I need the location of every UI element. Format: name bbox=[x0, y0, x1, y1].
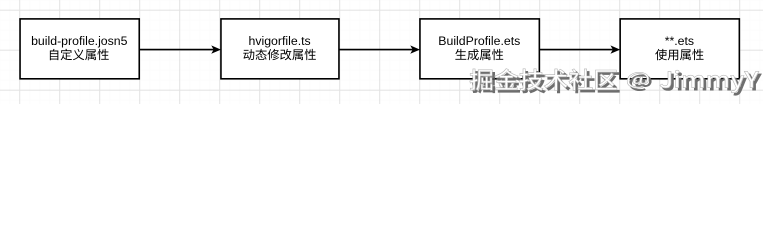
box 4: **.ets / 使用属性 bbox=[620, 19, 739, 79]
svg-text:BuildProfile.ets: BuildProfile.ets bbox=[438, 34, 520, 48]
arrow: box2 to box3 bbox=[339, 45, 420, 53]
box 2: hvigorfile.ts / 动态修改属性 bbox=[221, 19, 339, 79]
box 3: BuildProfile.ets / 生成属性 bbox=[420, 19, 539, 79]
arrow: box1 to box2 bbox=[139, 45, 221, 53]
watermark: 掘金技术社区 @ JimmyY bbox=[470, 69, 759, 93]
svg-text:hvigorfile.ts: hvigorfile.ts bbox=[248, 34, 310, 48]
svg-text:build-profile.josn5: build-profile.josn5 bbox=[31, 34, 128, 48]
box 1: build-profile.josn5 / 自定义属性 bbox=[20, 19, 139, 79]
svg-text:**.ets: **.ets bbox=[665, 34, 694, 48]
arrow: box3 to box4 bbox=[539, 45, 620, 53]
